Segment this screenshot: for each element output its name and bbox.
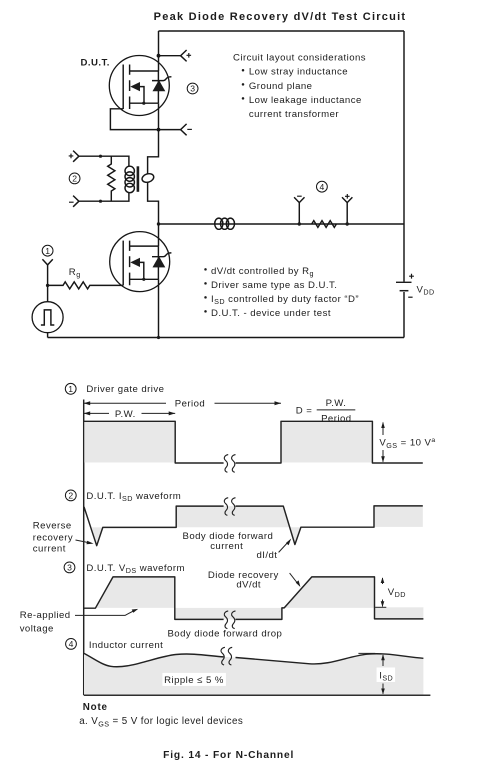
- svg-text:VGS = 10 Va: VGS = 10 Va: [379, 437, 435, 450]
- label dI/dt: [257, 539, 292, 561]
- junction shunt + tap: [346, 222, 349, 225]
- svg-text:D.U.T. - device under test: D.U.T. - device under test: [211, 308, 331, 319]
- inductor CT winding: [125, 166, 134, 193]
- transformer T1 current transformer: [69, 151, 159, 224]
- waveform 2 trace: [84, 506, 423, 546]
- transistor DUT (MOSFET with body diode): [109, 56, 171, 116]
- + label: [187, 53, 192, 58]
- svg-text:3: 3: [67, 563, 72, 573]
- break squiggle 1: [224, 455, 228, 473]
- waveform 1 gray fill: [84, 421, 175, 462]
- svg-text:Peak Diode Recovery dV/dt Test: Peak Diode Recovery dV/dt Test Circuit: [154, 11, 407, 23]
- wire CT primary bottom: [79, 193, 129, 202]
- waveform axis: [83, 400, 85, 696]
- svg-text:Note: Note: [83, 702, 108, 713]
- svg-text:ISD controlled by duty factor: ISD controlled by duty factor “D”: [211, 294, 359, 306]
- break squiggle 2: [224, 498, 228, 516]
- core bar: [137, 166, 140, 192]
- waveform 1 label: [65, 383, 164, 395]
- junction source Kelvin tap: [157, 128, 161, 132]
- wire DUT drain rail: [158, 31, 160, 71]
- dimension P.W.: [84, 409, 176, 420]
- label D = P.W./Period: [296, 398, 356, 424]
- waveform 2 label: [65, 490, 181, 503]
- svg-text:1: 1: [68, 384, 73, 394]
- label diode recovery dV/dt: [208, 570, 301, 590]
- wire CT primary top: [79, 156, 129, 166]
- node 4 (circled): [317, 181, 328, 192]
- svg-text:Fig. 14 - For N-Channel: Fig. 14 - For N-Channel: [163, 750, 294, 761]
- svg-text:Inductor current: Inductor current: [89, 640, 163, 651]
- waveform 3 label: [64, 562, 185, 575]
- svg-text:4: 4: [320, 182, 325, 192]
- secondary single-turn loop: [141, 172, 155, 184]
- svg-text:2: 2: [72, 174, 77, 184]
- svg-text:VDD: VDD: [388, 587, 406, 599]
- svg-text:Re-applied: Re-applied: [20, 610, 71, 621]
- wire right rail upper: [403, 31, 405, 282]
- terminal 4 + stub: [342, 197, 352, 224]
- dimension Period: [84, 399, 281, 410]
- svg-text:3: 3: [190, 84, 195, 94]
- svg-text:Reverse: Reverse: [33, 520, 72, 531]
- resistor shunt (node 4): [312, 221, 337, 228]
- waveform 3 gray fill: [95, 577, 174, 608]
- junction bottom rail / driver source: [157, 336, 160, 339]
- wire driver source to bottom rail: [158, 279, 160, 337]
- terminal 1 arrowhead: [42, 259, 52, 265]
- waveform 4 trace: [84, 653, 423, 666]
- svg-text:dV/dt controlled by Rg: dV/dt controlled by Rg: [211, 266, 314, 278]
- wire top rail: [159, 30, 405, 32]
- svg-text:dI/dt: dI/dt: [257, 550, 278, 561]
- junction drain Kelvin tap: [157, 54, 161, 58]
- junction CT bottom: [99, 200, 102, 203]
- terminal 2 + arrowhead: [73, 151, 79, 162]
- dimension VGS: [379, 422, 435, 463]
- + label: [345, 194, 350, 199]
- label Ripple: [162, 673, 226, 686]
- svg-text:D.U.T.: D.U.T.: [81, 58, 110, 69]
- svg-text:dV/dt: dV/dt: [236, 579, 261, 590]
- battery VDD plates: [396, 282, 412, 290]
- node 2 (circled): [69, 173, 80, 184]
- note circuit layout considerations: [233, 53, 366, 120]
- dimension ISD: [358, 653, 395, 694]
- node 1 (circled): [42, 245, 53, 256]
- battery + label: [409, 274, 414, 279]
- waveform 4 gray fill: [84, 653, 423, 694]
- wire right rail lower: [403, 292, 405, 338]
- - label: [297, 195, 302, 197]
- transistor driver MOSFET: [110, 232, 172, 292]
- svg-text:Ground plane: Ground plane: [249, 81, 313, 92]
- svg-text:VDD: VDD: [417, 285, 435, 297]
- wire load branch: [159, 223, 405, 225]
- inductor L load: [215, 218, 235, 229]
- resistor Rg: [48, 282, 124, 289]
- wire DUT gate loop: [110, 109, 180, 130]
- terminal Kelvin + arrowhead: [181, 50, 187, 61]
- svg-text:Period: Period: [321, 413, 351, 424]
- dimension VDD: [375, 577, 406, 607]
- svg-text:current transformer: current transformer: [249, 109, 339, 120]
- waveform 1 trace: [84, 421, 423, 463]
- svg-text:Low stray inductance: Low stray inductance: [249, 67, 348, 78]
- label body diode forward current: [183, 531, 274, 552]
- svg-text:1: 1: [45, 246, 50, 256]
- terminal 4 - stub: [294, 197, 304, 224]
- wire Kelvin + tap: [159, 55, 181, 57]
- svg-text:recovery: recovery: [33, 532, 73, 543]
- battery - label: [408, 296, 412, 298]
- svg-text:current: current: [33, 544, 66, 555]
- svg-text:D =: D =: [296, 405, 313, 416]
- svg-text:current: current: [210, 541, 243, 552]
- svg-text:Driver same type as D.U.T.: Driver same type as D.U.T.: [211, 280, 337, 291]
- - label: [187, 128, 192, 130]
- junction main rail / load branch: [157, 222, 160, 225]
- break squiggle 4: [221, 647, 225, 665]
- svg-text:4: 4: [69, 639, 74, 649]
- wire bottom rail: [48, 337, 404, 339]
- waveform 4 label: [66, 639, 164, 652]
- waveform 4 baseline rule: [84, 694, 431, 696]
- svg-text:Ripple ≤ 5 %: Ripple ≤ 5 %: [164, 675, 224, 686]
- waveform 3 trace: [84, 577, 423, 620]
- svg-text:Circuit layout considerations: Circuit layout considerations: [233, 53, 366, 64]
- label reverse recovery current: [33, 520, 94, 554]
- junction CT top: [99, 155, 102, 158]
- svg-text:voltage: voltage: [20, 623, 54, 634]
- svg-text:Driver gate drive: Driver gate drive: [86, 384, 164, 395]
- node 3 (circled): [187, 83, 198, 94]
- svg-text:Body diode forward drop: Body diode forward drop: [167, 629, 282, 640]
- svg-text:Rg: Rg: [69, 267, 81, 279]
- break squiggle 3: [224, 611, 228, 629]
- svg-text:D.U.T. ISD waveform: D.U.T. ISD waveform: [86, 491, 181, 503]
- svg-text:D.U.T. VDS waveform: D.U.T. VDS waveform: [86, 563, 185, 575]
- svg-text:Low leakage inductance: Low leakage inductance: [249, 95, 362, 106]
- source pulse generator: [32, 302, 63, 333]
- note test conditions: [204, 266, 359, 319]
- terminal Kelvin - arrowhead: [181, 124, 187, 135]
- resistor CT burden: [108, 156, 115, 201]
- svg-text:2: 2: [68, 491, 73, 501]
- wire pulse generator to bottom rail: [47, 333, 49, 338]
- wire CT loop to main rail: [148, 182, 159, 224]
- svg-text:Period: Period: [175, 399, 205, 410]
- waveform 2 gray fill: [92, 527, 103, 545]
- terminal 2 - arrowhead: [73, 196, 79, 207]
- label re-applied voltage: [20, 609, 139, 634]
- wire main rail to driver drain: [158, 224, 160, 246]
- junction gate drive: [46, 284, 49, 287]
- wire DUT source to CT loop: [148, 103, 159, 174]
- svg-text:P.W.: P.W.: [115, 409, 136, 420]
- wire terminal 1 stub: [47, 265, 49, 302]
- svg-text:P.W.: P.W.: [326, 398, 347, 409]
- junction shunt - tap: [298, 222, 301, 225]
- svg-text:a. VGS = 5 V for logic level d: a. VGS = 5 V for logic level devices: [79, 716, 243, 728]
